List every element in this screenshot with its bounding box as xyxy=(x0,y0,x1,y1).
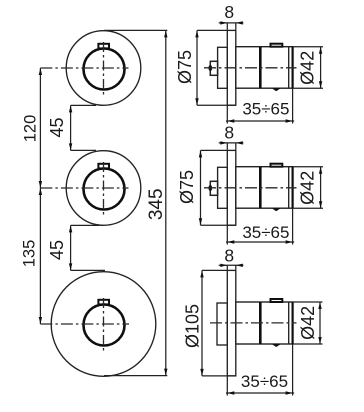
side view B: dimension 35÷65 line xyxy=(226,241,294,243)
side view B: knob top tab xyxy=(271,164,283,167)
side view B: dimension Ø42 line xyxy=(320,167,322,209)
side view A: knob end face thick xyxy=(292,47,294,88)
side view C: knob cylinder outline xyxy=(236,302,293,344)
side view C: knob top tab xyxy=(271,299,283,302)
svg-text:Ø42: Ø42 xyxy=(298,306,318,340)
svg-text:135: 135 xyxy=(21,240,39,268)
svg-text:Ø42: Ø42 xyxy=(297,171,317,205)
svg-text:8: 8 xyxy=(224,2,234,22)
side view C: knob end face thick xyxy=(292,302,294,344)
side view C: dimension Ø42 extension lines xyxy=(293,302,323,344)
side view A (top): wall plate xyxy=(227,30,236,105)
svg-text:120: 120 xyxy=(22,115,40,143)
svg-text:Ø75: Ø75 xyxy=(175,50,195,84)
dimension 135 line xyxy=(39,188,41,324)
side view A: dimension Ø42 extension lines xyxy=(293,47,323,88)
side view B: knob end face thick xyxy=(292,167,294,209)
svg-text:35÷65: 35÷65 xyxy=(242,223,289,242)
side view B: dimension 35÷65 extension lines xyxy=(227,208,292,244)
front view: bottom knob circle Ø42 xyxy=(84,305,125,346)
front view: middle circle horizontal centerline xyxy=(40,187,128,189)
side view B: knob bottom screw bump xyxy=(272,208,281,211)
svg-text:Ø105: Ø105 xyxy=(183,304,203,348)
front view: top knob index tab xyxy=(98,44,109,49)
side view C: rear valve body xyxy=(217,303,227,345)
side view B: dimension 8 line xyxy=(219,142,244,144)
front view: middle circle vertical centerline xyxy=(103,162,105,215)
side view B: centerline xyxy=(204,187,297,189)
side view A: knob divider thick xyxy=(259,47,262,88)
front view: middle knob index tab xyxy=(98,164,109,169)
dimension 345: extension lines xyxy=(104,30,167,375)
side view C: dimension 35÷65 extension lines xyxy=(227,344,292,395)
front view: middle knob circle Ø42 xyxy=(84,169,125,210)
side view C: knob front ring line xyxy=(288,302,290,344)
front view: middle escutcheon outer circle Ø75 xyxy=(66,151,141,226)
svg-text:8: 8 xyxy=(224,246,234,266)
side view A: knob top tab xyxy=(271,44,283,47)
side view A: dimension Ø42 line xyxy=(320,47,322,88)
svg-text:Ø75: Ø75 xyxy=(177,170,197,204)
svg-text:8: 8 xyxy=(224,123,234,143)
front view: bottom circle vertical centerline xyxy=(103,298,105,351)
side view A: dimension 35÷65 line xyxy=(226,120,294,122)
side view B: dimension 8 extension lines xyxy=(227,143,236,150)
svg-text:35÷65: 35÷65 xyxy=(242,100,289,119)
svg-text:45: 45 xyxy=(47,240,67,260)
side view C: dimension 8 line xyxy=(219,264,244,266)
svg-text:35÷65: 35÷65 xyxy=(241,372,288,391)
svg-text:345: 345 xyxy=(146,188,167,220)
side view B: dimension Ø75 extension lines xyxy=(201,150,236,225)
side view A: dimension 8 extension lines xyxy=(227,23,236,30)
side view A: dimension 8 line xyxy=(219,22,244,24)
side view C: knob bottom screw bump xyxy=(272,344,281,347)
side view A: dimension 35÷65 extension lines xyxy=(227,88,292,123)
side view B: rear connection stub xyxy=(210,181,217,195)
side view B: dimension Ø42 extension lines xyxy=(293,167,323,209)
dimension 45 lower: extension lines xyxy=(71,225,105,270)
side view A: dimension Ø75 line xyxy=(196,30,198,105)
side view B: rear valve body xyxy=(218,167,228,208)
front view: top escutcheon outer circle Ø75 xyxy=(66,31,141,106)
side view A: knob cylinder outline xyxy=(236,47,293,88)
front view: top circle vertical centerline xyxy=(103,42,105,95)
side view C: knob divider thick xyxy=(259,302,262,344)
side view A: knob front ring line xyxy=(288,47,290,88)
dimension 45 lower: line xyxy=(70,225,72,270)
side view B: knob cylinder outline xyxy=(236,167,293,209)
side view A: knob bottom screw bump xyxy=(272,88,281,91)
front view: bottom escutcheon outer circle Ø105 xyxy=(51,272,156,377)
side view A: centerline xyxy=(204,67,297,69)
side view C: dimension 35÷65 line xyxy=(226,392,294,394)
side view C: dimension 8 extension lines xyxy=(227,265,236,270)
front view: top knob circle Ø42 xyxy=(84,49,125,90)
dimension 120 line xyxy=(39,68,41,188)
side view A: dimension Ø75 extension lines xyxy=(197,30,236,105)
front view: top circle horizontal centerline xyxy=(40,67,128,69)
side view B: inlet marker lens xyxy=(208,185,212,191)
dimension 345: line xyxy=(165,30,167,375)
side view A: rear valve body xyxy=(218,47,228,88)
side view A: rear connection stub xyxy=(210,61,217,75)
svg-text:45: 45 xyxy=(47,117,67,137)
side view B: knob front ring line xyxy=(288,167,290,209)
side view B (middle): wall plate xyxy=(227,150,236,225)
side view B: dimension Ø75 line xyxy=(200,150,202,225)
side view C: dimension Ø105 extension lines xyxy=(202,270,236,376)
side view C: centerline xyxy=(210,322,297,324)
side view A: inlet marker lens xyxy=(208,65,212,71)
front view: bottom knob index tab xyxy=(98,300,109,305)
front view: bottom circle horizontal centerline xyxy=(40,323,129,325)
side view C: dimension Ø105 line xyxy=(201,270,203,376)
dimension 45 upper: extension lines xyxy=(71,105,96,150)
svg-text:Ø42: Ø42 xyxy=(297,51,317,85)
dimension 45 upper: line xyxy=(70,105,72,150)
side view C (bottom): wall plate Ø105 xyxy=(227,270,236,376)
side view C: dimension Ø42 line xyxy=(319,302,321,344)
side view B: knob divider thick xyxy=(259,167,262,209)
